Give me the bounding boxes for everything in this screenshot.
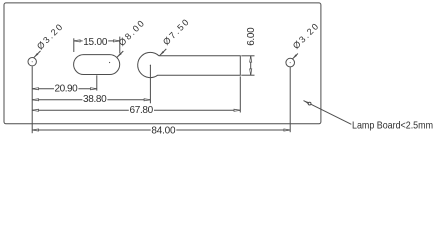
svg-text:Lamp Board<2.5mm: Lamp Board<2.5mm [352,119,433,131]
svg-text:67.80: 67.80 [130,105,154,116]
leader line for Lamp Board note [304,101,352,125]
dim 67.80 line left segment [32,109,129,111]
dim 15.00 line left segment [74,40,83,42]
dim 6.00 arrow top [250,56,252,62]
dim 20.90 line right segment [78,88,96,90]
extension line from keyhole center [149,65,151,103]
keyhole slot outline [138,52,241,77]
dim 15.00 line right segment [108,40,120,42]
dim 20.90 arrow left [32,88,38,90]
svg-text:84.00: 84.00 [151,125,176,136]
arrowhead 7.50 leader [159,51,164,56]
arrowhead right 3.20 leader [292,54,297,59]
svg-text:Ø3.20: Ø3.20 [291,22,320,51]
dim 67.80 line right segment [154,109,240,111]
dim 15.00 arrow left [74,40,80,42]
dim 38.80 arrow left [32,99,38,101]
hole C1 (left 3.20 hole) [28,58,36,66]
dim 67.80 arrow left [32,109,38,111]
dim 67.80 arrow right [234,109,240,111]
dim 38.80 line right segment [107,99,150,101]
svg-text:15.00: 15.00 [83,37,108,48]
obround slot [74,55,120,75]
hole C1 center mark [32,61,33,62]
arrowhead 8.00 leader [117,53,122,58]
dim 38.80 arrow right [144,99,150,101]
board outline [4,3,321,124]
arrowhead left 3.20 leader [34,53,39,58]
svg-text:38.80: 38.80 [83,94,107,105]
dim 38.80 line left segment [32,99,82,101]
obround center mark [109,62,110,63]
leader line for right 3.20 [292,54,298,60]
leader line for 7.50 [159,49,166,56]
dim 84.00 arrow left [32,129,38,131]
leader line for left 3.20 [34,51,41,58]
dim 15.00 extension line right [119,37,121,54]
arrowhead Lamp Board leader [304,101,309,104]
svg-text:6.00: 6.00 [246,27,257,46]
keyhole center mark [150,65,151,66]
dim 20.90 line left segment [32,88,54,90]
small circle marker on Lamp Board leader [308,102,311,105]
dim 15.00 arrow right [114,40,120,42]
svg-text:20.90: 20.90 [55,84,79,95]
dim 6.00 extension tick top [241,55,254,57]
dim 84.00 line left segment [32,129,151,131]
dim 15.00 extension line left [73,38,75,52]
dim 84.00 line right segment [176,129,290,131]
extension line from obround center [96,75,98,90]
hole C2 (right 3.20 hole) [286,58,295,67]
svg-text:Ø7.50: Ø7.50 [161,17,191,47]
leader line for 8.00 [117,51,123,57]
extension line from right hole [289,67,291,132]
svg-text:Ø8.00: Ø8.00 [117,19,146,48]
hole C2 center mark [290,62,291,63]
dim 6.00 arrow bottom [250,69,252,75]
extension line from keyhole right end [239,76,241,112]
dim 20.90 arrow right [91,88,97,90]
dim 6.00 line [250,56,252,75]
svg-text:Ø3.20: Ø3.20 [35,22,64,51]
dim 84.00 arrow right [284,129,290,131]
dim 6.00 extension tick bottom [241,74,254,76]
extension line from left hole [31,66,33,133]
